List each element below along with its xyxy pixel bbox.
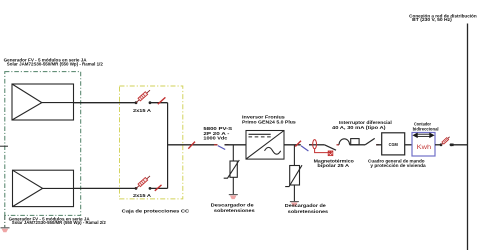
wire arrester to ground xyxy=(293,185,295,201)
MCB magnetic trip box xyxy=(328,151,333,156)
svg-text:bipolar 25 A: bipolar 25 A xyxy=(317,163,349,169)
svg-text:Solar JAM72S30-550/MR (550 Wp): Solar JAM72S30-550/MR (550 Wp) - Ramal 1… xyxy=(7,61,104,66)
wire fuse to grid riser xyxy=(451,144,468,146)
DC switch (S800 PV-S) contacts xyxy=(214,144,218,146)
PV array enclosure (green dash-dot) xyxy=(5,72,81,216)
main DC wire to switch xyxy=(168,144,218,146)
junction dot xyxy=(451,144,454,147)
MCB blade 2 xyxy=(324,145,336,151)
svg-text:40 A, 30 mA (tipo A): 40 A, 30 mA (tipo A) xyxy=(332,125,386,130)
RCD toroid arc xyxy=(339,139,350,145)
svg-text:y protección de vivienda: y protección de vivienda xyxy=(370,163,426,168)
surge arrester DC (varistor) xyxy=(224,160,240,178)
wire arrester to ground xyxy=(232,177,234,194)
conductor slash string 1 xyxy=(158,97,166,104)
wire RCD to CGM xyxy=(376,144,382,146)
DC bus (strings junction) xyxy=(167,103,169,189)
wire through thermal element xyxy=(309,144,324,146)
fuse F3 (service fuse) xyxy=(440,137,453,146)
svg-text:Caja de protecciones CC: Caja de protecciones CC xyxy=(122,208,190,214)
svg-text:Kwh: Kwh xyxy=(417,144,432,151)
wire fuse2 to bus xyxy=(150,187,168,189)
meter box (bidirectional kWh) xyxy=(412,133,435,157)
fuse F2 (2x15 A string 2) xyxy=(135,176,152,190)
svg-text:2x15 A: 2x15 A xyxy=(133,108,152,114)
PV panel 1 (module symbol) xyxy=(12,84,74,120)
svg-text:Descargador de: Descargador de xyxy=(211,203,254,209)
MCB right contact xyxy=(309,144,312,146)
wire under RCD sensor xyxy=(350,144,366,146)
node DC surge tap xyxy=(232,145,234,161)
surge arrester AC (varistor) xyxy=(285,165,302,186)
svg-text:2x15 A: 2x15 A xyxy=(133,193,152,199)
svg-text:bidireccional: bidireccional xyxy=(413,126,439,131)
grid riser (LV network) xyxy=(467,24,469,250)
wire string2 to fuse xyxy=(74,187,137,189)
wire CGM to meter xyxy=(405,144,412,146)
fuse F1 (2x15 A string 1) xyxy=(135,90,152,104)
wire inverter to AC side xyxy=(284,144,301,146)
ground (AC surge) xyxy=(290,202,299,207)
svg-text:Solar JAM72S30-550/MR (550 Wp): Solar JAM72S30-550/MR (550 Wp) - Ramal 2… xyxy=(12,220,107,225)
RCD blade xyxy=(365,138,375,144)
MCB thermal element (ellipse) xyxy=(313,140,317,149)
earth conductor of PV frames xyxy=(4,215,6,227)
ground (PV frames) xyxy=(1,228,10,233)
svg-text:Primo GEN24 5.0 Plus: Primo GEN24 5.0 Plus xyxy=(242,119,297,124)
svg-text:BT (230 V, 50 Hz): BT (230 V, 50 Hz) xyxy=(412,17,452,22)
inverter U1 (DC/AC) xyxy=(246,131,284,160)
tick on left frame line xyxy=(0,145,8,147)
RCD right contact xyxy=(376,144,379,146)
node AC surge tap xyxy=(293,145,295,166)
conductor slash main DC xyxy=(188,142,195,149)
DC switch blade xyxy=(218,146,225,150)
wire switch to inverter xyxy=(225,144,247,146)
svg-text:sobretensiones: sobretensiones xyxy=(214,208,255,214)
svg-text:CGM: CGM xyxy=(389,142,399,147)
PV panel 2 (module symbol) xyxy=(13,170,74,206)
wire string1 to fuse xyxy=(74,102,137,104)
wire meter to fuse xyxy=(435,144,441,146)
svg-text:Descargador de: Descargador de xyxy=(285,203,326,209)
MCB blade (blue) xyxy=(301,146,308,151)
wire fuse1 to bus xyxy=(150,102,168,104)
ground (DC surge) xyxy=(229,195,238,200)
RCD left contact xyxy=(337,144,340,146)
svg-text:sobretensiones: sobretensiones xyxy=(288,209,329,215)
MCB trip link xyxy=(315,149,331,153)
RCD sensing rectangle xyxy=(351,139,359,145)
DC protections box (yellow dashed) xyxy=(120,86,183,199)
meter arrow (bidirectional) xyxy=(413,133,433,137)
conductor slash string 2 xyxy=(155,185,162,191)
svg-text:1000 Vdc: 1000 Vdc xyxy=(203,136,227,142)
conductor slash AC xyxy=(295,141,301,147)
CGM distribution board box xyxy=(382,133,405,155)
